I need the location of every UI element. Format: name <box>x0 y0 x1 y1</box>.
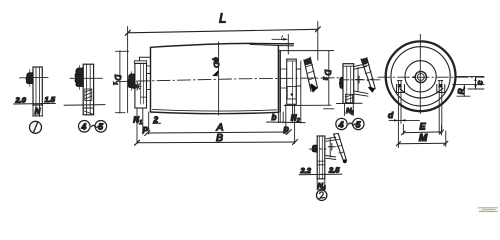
svg-text:5: 5 <box>356 119 361 129</box>
bearing base line right <box>284 104 331 106</box>
dimension D2 <box>324 51 335 109</box>
right bearing channel bracket <box>296 61 301 123</box>
end view right bolt slot lines <box>438 80 443 133</box>
standalone view inner cross-hatch <box>345 94 352 102</box>
bearing detail view 1: pedestal rectangle <box>33 67 42 105</box>
right side reference lines for c and R <box>453 76 485 96</box>
svg-text:P: P <box>283 126 289 135</box>
standalone view channel bracket <box>354 64 368 96</box>
svg-text:3: 3 <box>351 111 354 117</box>
bearing view 1 dimension line 2.0 / 1.5 <box>14 102 56 105</box>
svg-text:E: E <box>420 121 427 131</box>
bottom bearing view with plate (balloon 2) <box>317 136 325 179</box>
standalone view channel cross mark <box>356 76 363 83</box>
watermark <box>478 207 498 212</box>
svg-text:1: 1 <box>112 82 118 85</box>
svg-text:2: 2 <box>321 76 327 80</box>
bottom view legs <box>317 179 325 190</box>
dimension E <box>401 125 443 136</box>
end view keyway tick <box>413 76 415 78</box>
balloon number 2 <box>317 190 327 200</box>
right bearing lower block with dot <box>287 87 296 100</box>
end view rim inner circle <box>391 47 450 106</box>
dimension B <box>135 140 298 146</box>
svg-text:4: 4 <box>81 122 87 132</box>
svg-text:2.2: 2.2 <box>300 166 312 175</box>
bottom extension lines left <box>137 108 149 144</box>
svg-text:N: N <box>35 107 41 116</box>
view 4~5 centerline <box>70 77 103 79</box>
bearing view 1 centerline <box>20 77 49 79</box>
svg-text:5: 5 <box>98 122 103 132</box>
standalone bearing view with plate (4~5, right) <box>343 64 354 104</box>
svg-text:c: c <box>476 80 485 85</box>
dimension c (rotated label) <box>474 77 476 89</box>
dimension M <box>396 124 447 148</box>
balloon number 4 <box>79 121 91 133</box>
svg-text:φD: φD <box>212 57 221 68</box>
bottom view plate (hatched, slanted) <box>334 134 347 164</box>
svg-text:b: b <box>272 113 277 122</box>
bearing view 1 hatched hub blob <box>26 73 33 84</box>
svg-text:M: M <box>419 133 428 144</box>
bottom view centerline <box>310 148 327 150</box>
bottom view channel cross mark <box>328 143 335 150</box>
bearing view 1 lower legs <box>33 104 42 117</box>
end view right lug <box>437 85 445 93</box>
dimension A <box>145 130 291 136</box>
label D2 (rotated) <box>321 70 332 80</box>
end view left lug <box>397 85 405 93</box>
left bearing assembly on main view <box>134 57 150 108</box>
standalone view plate (hatched, slanted) <box>361 58 375 93</box>
drum vertical centerline <box>218 42 220 115</box>
bottom view dimension line 2.2 / 2.5 <box>299 173 342 176</box>
drum shell outline <box>151 43 294 113</box>
balloon number 1 <box>30 121 42 133</box>
label D1 (rotated) <box>112 75 123 85</box>
svg-text:L: L <box>219 11 226 26</box>
tilde between balloons (second) <box>349 123 356 125</box>
main view: dimension L <box>125 21 320 112</box>
bottom view hatched blob <box>312 145 317 152</box>
left bearing center cross mark <box>133 83 141 90</box>
svg-text:2.5: 2.5 <box>328 165 340 174</box>
right bearing assembly on main view <box>280 51 334 105</box>
standalone view centerline <box>340 79 380 81</box>
balloon number 5 (second) <box>353 118 364 129</box>
balloon number 4 (second) <box>336 118 347 129</box>
balloon number 5 <box>95 121 107 133</box>
svg-text:d: d <box>388 110 394 120</box>
view 4~5 leg ticks <box>83 108 93 114</box>
dimension R (rotated label) <box>463 85 465 97</box>
view 4~5 inner cross-hatch block <box>85 89 92 101</box>
view 4~5 hatched hub blob <box>75 68 83 87</box>
svg-text:R: R <box>457 88 466 94</box>
end view vertical centerline <box>419 34 421 113</box>
bottom view channel bracket <box>326 137 336 159</box>
dimension line D1 <box>116 51 129 113</box>
view 4~5 base line <box>64 104 105 107</box>
standalone view N3 sub-label bracket <box>345 104 354 116</box>
svg-text:1.5: 1.5 <box>45 95 56 104</box>
end view horizontal centerline <box>378 76 484 78</box>
bearing detail view 4~5 (left): pedestal rectangle <box>83 64 93 115</box>
svg-text:P: P <box>143 126 149 135</box>
label phi-D with leader arrow <box>212 57 221 76</box>
bottom extension lines right <box>278 104 294 143</box>
end view shaft circles <box>415 71 426 82</box>
end view saddle arc under hub <box>400 88 443 98</box>
end view: outer circle <box>386 41 456 111</box>
standalone view hatched blob <box>339 77 343 88</box>
svg-text:B: B <box>216 132 223 144</box>
main horizontal centerline (dash-dot) <box>116 78 340 82</box>
end view left bolt slot lines <box>397 80 402 123</box>
end view hub flange circle <box>405 61 436 92</box>
svg-text:D: D <box>113 75 122 81</box>
left bearing hatched blob <box>128 74 135 89</box>
svg-text:2: 2 <box>296 118 300 124</box>
standalone view base line <box>337 102 363 104</box>
tick marks on circle centerline crossings <box>386 41 455 111</box>
svg-text:2.0: 2.0 <box>15 96 27 105</box>
right mounting plate (hatched, slanted) <box>304 57 318 93</box>
tilde between balloons <box>92 125 99 127</box>
svg-text:D: D <box>323 70 332 76</box>
left shaft ladder rungs <box>147 66 151 90</box>
svg-text:4: 4 <box>338 119 344 129</box>
